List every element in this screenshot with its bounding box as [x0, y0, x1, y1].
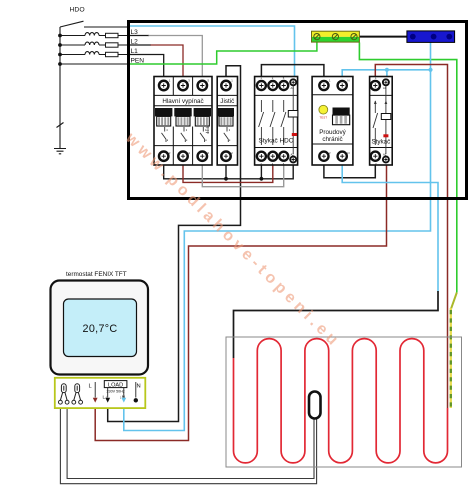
svg-text:Jistič: Jistič: [220, 98, 234, 105]
svg-text:A2: A2: [291, 153, 295, 157]
svg-text:Hlavní vypínač: Hlavní vypínač: [162, 98, 203, 105]
svg-text:L2: L2: [131, 39, 139, 46]
svg-text:20,7°C: 20,7°C: [83, 323, 118, 335]
svg-text:chránič: chránič: [322, 136, 342, 143]
svg-text:A2: A2: [383, 153, 387, 157]
svg-text:A1: A1: [291, 86, 295, 90]
svg-text:A1: A1: [383, 86, 387, 90]
svg-text:230V 50Hz: 230V 50Hz: [106, 390, 124, 394]
svg-text:TEST: TEST: [319, 116, 327, 120]
svg-text:L1: L1: [131, 48, 139, 55]
svg-text:Stykač: Stykač: [371, 139, 390, 146]
svg-text:Stykač HDO: Stykač HDO: [259, 138, 294, 145]
svg-text:HDO: HDO: [70, 7, 85, 14]
svg-text:N: N: [348, 78, 350, 82]
svg-text:termostat FENIX TFT: termostat FENIX TFT: [66, 271, 127, 278]
svg-text:LOAD: LOAD: [108, 382, 123, 388]
svg-text:N: N: [348, 151, 350, 155]
svg-text:L3: L3: [131, 29, 139, 36]
svg-text:PEN: PEN: [131, 58, 145, 65]
svg-text:N: N: [137, 384, 141, 390]
